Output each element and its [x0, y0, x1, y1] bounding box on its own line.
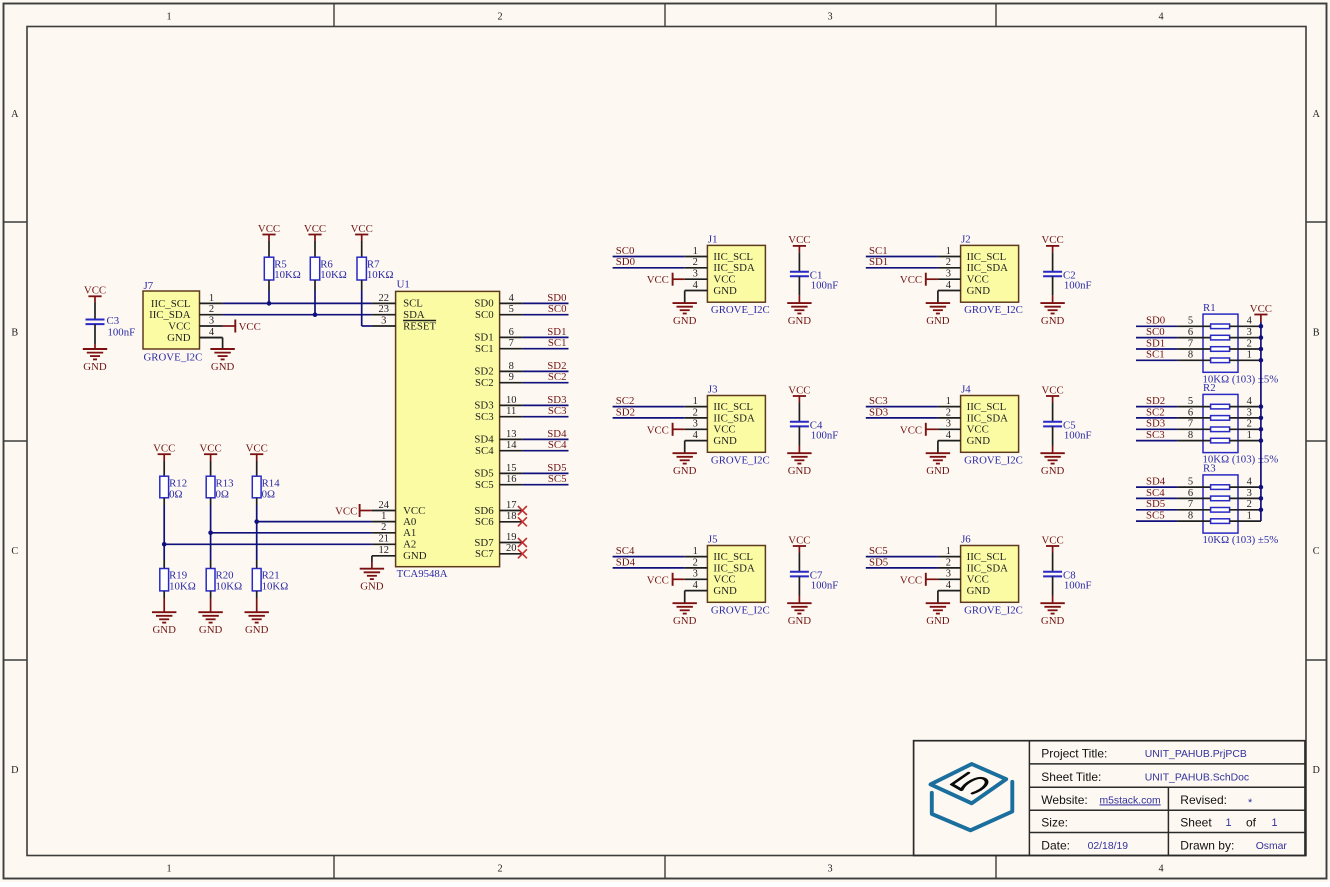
svg-text:SD1: SD1 — [869, 256, 888, 268]
svg-text:of: of — [1246, 816, 1257, 830]
net label SD0 — [547, 292, 566, 304]
wire J4.4 to ground — [937, 441, 939, 454]
connector J1 GROVE_I2C — [685, 234, 770, 317]
svg-text:1: 1 — [693, 246, 698, 257]
connector J7 GROVE_I2C — [143, 280, 223, 363]
ground at C4 — [787, 453, 811, 477]
svg-text:UNIT_PAHUB.SchDoc: UNIT_PAHUB.SchDoc — [1145, 772, 1249, 783]
ground at C8 — [1040, 603, 1064, 627]
wire VCC to C2 — [1052, 252, 1054, 271]
svg-text:SC2: SC2 — [548, 371, 567, 383]
svg-text:B: B — [1313, 328, 1320, 339]
svg-text:GND: GND — [83, 361, 107, 373]
svg-text:4: 4 — [1247, 477, 1253, 488]
svg-text:4: 4 — [1247, 316, 1253, 327]
power VCC at R6 — [304, 223, 326, 241]
svg-text:IIC_SCL: IIC_SCL — [151, 298, 191, 310]
svg-text:SD2: SD2 — [1146, 395, 1165, 407]
svg-text:SC0: SC0 — [1146, 326, 1165, 338]
svg-text:GND: GND — [713, 435, 737, 447]
svg-text:GND: GND — [211, 361, 235, 373]
svg-text:1: 1 — [946, 546, 951, 557]
junction R6/SDA — [313, 312, 318, 317]
svg-text:GND: GND — [967, 585, 991, 597]
svg-text:A2: A2 — [403, 539, 416, 551]
power VCC at R5 — [258, 223, 280, 241]
svg-text:IIC_SDA: IIC_SDA — [967, 562, 1009, 574]
svg-text:23: 23 — [378, 304, 389, 315]
resistor network R3 10KΩ (103) ±5% — [1177, 463, 1278, 546]
svg-text:SD7: SD7 — [474, 537, 494, 549]
svg-text:VCC: VCC — [788, 384, 810, 396]
net label SC4 — [548, 439, 567, 451]
svg-text:5: 5 — [1188, 396, 1193, 407]
svg-text:19: 19 — [506, 532, 517, 543]
svg-text:R2: R2 — [1203, 382, 1216, 394]
wire U1.6 SD1 net — [522, 336, 568, 338]
wire SD2 to R2.5 — [1136, 406, 1177, 408]
power VCC at J5.3 — [647, 573, 685, 587]
svg-text:GND: GND — [926, 315, 950, 327]
svg-text:6: 6 — [1188, 327, 1193, 338]
net label SD5 — [869, 556, 888, 568]
svg-text:GND: GND — [967, 435, 991, 447]
power VCC at C2 — [1041, 234, 1063, 252]
svg-text:17: 17 — [506, 500, 517, 511]
svg-text:3: 3 — [1247, 407, 1252, 418]
svg-text:GND: GND — [788, 465, 812, 477]
svg-text:1: 1 — [946, 396, 951, 407]
no-connect U1.19 SD7 — [518, 538, 527, 547]
svg-text:GROVE_I2C: GROVE_I2C — [711, 604, 770, 616]
wire SD0 net to J1.2 — [613, 267, 685, 269]
svg-text:VCC: VCC — [304, 223, 326, 235]
svg-text:3: 3 — [381, 315, 386, 326]
connector J5 GROVE_I2C — [685, 534, 770, 617]
wire J2.4 to ground — [937, 291, 939, 304]
wire J6.4 to ground — [937, 591, 939, 604]
capacitor C1 100nF — [790, 270, 838, 292]
ground at J5.4 — [673, 603, 697, 627]
svg-text:1: 1 — [1247, 350, 1252, 361]
wire SD3 net to J4.2 — [866, 417, 938, 419]
wire R19 to ground — [163, 591, 165, 612]
svg-text:RESET: RESET — [403, 320, 436, 332]
svg-text:GND: GND — [788, 315, 812, 327]
svg-text:22: 22 — [378, 293, 389, 304]
wire SC0 net to J1.1 — [613, 256, 685, 258]
svg-text:IIC_SCL: IIC_SCL — [713, 551, 753, 563]
junctions R3 VCC rail — [1259, 485, 1264, 512]
power VCC at J7.3 — [223, 320, 261, 334]
resistor R6 10KΩ — [310, 241, 347, 281]
svg-text:SD4: SD4 — [1146, 476, 1166, 488]
wire SC5 net to J6.1 — [866, 556, 938, 558]
ground at C2 — [1040, 303, 1064, 327]
svg-text:GROVE_I2C: GROVE_I2C — [964, 604, 1023, 616]
svg-text:3: 3 — [946, 569, 951, 580]
resistor R7 10KΩ — [357, 241, 394, 281]
svg-text:4: 4 — [693, 430, 699, 441]
svg-text:Drawn by:: Drawn by: — [1180, 838, 1234, 852]
net label SC3 (R2) — [1146, 429, 1165, 441]
capacitor C4 100nF — [790, 420, 838, 442]
svg-text:SD0: SD0 — [474, 298, 493, 310]
svg-text:8: 8 — [1188, 430, 1193, 441]
wire VCC to C4 — [798, 403, 800, 422]
svg-text:SD1: SD1 — [1146, 337, 1165, 349]
wire U1.4 SD0 net — [522, 302, 568, 304]
wire C7 to ground — [798, 576, 800, 603]
resistor R19 10KΩ — [160, 569, 196, 593]
svg-text:D: D — [1313, 765, 1320, 776]
wire SC2 to R2.6 — [1136, 417, 1177, 419]
wire A0 net (R14 to U1.1) — [257, 521, 372, 523]
svg-text:2: 2 — [497, 12, 502, 23]
capacitor C5 100nF — [1043, 420, 1091, 442]
svg-text:GND: GND — [403, 550, 427, 562]
svg-text:VCC: VCC — [713, 274, 735, 286]
svg-text:8: 8 — [1188, 350, 1193, 361]
svg-text:3: 3 — [1247, 327, 1252, 338]
power VCC at J3.3 — [647, 423, 685, 437]
svg-text:SC2: SC2 — [616, 395, 635, 407]
svg-text:3: 3 — [1247, 488, 1252, 499]
svg-text:SD4: SD4 — [547, 428, 567, 440]
net label SD1 — [547, 326, 566, 338]
net label SC5 — [869, 545, 888, 557]
svg-text:7: 7 — [1188, 499, 1193, 510]
svg-text:SC3: SC3 — [869, 395, 888, 407]
M5 logo — [931, 764, 1013, 830]
svg-text:GND: GND — [360, 581, 384, 593]
svg-text:GND: GND — [713, 585, 737, 597]
svg-text:1: 1 — [1271, 817, 1277, 829]
net label SD0 (R1) — [1146, 315, 1165, 327]
svg-text:16: 16 — [506, 474, 517, 485]
svg-text:SC0: SC0 — [548, 303, 567, 315]
svg-text:SC3: SC3 — [548, 405, 567, 417]
svg-text:VCC: VCC — [1041, 234, 1063, 246]
no-connect U1.17 SD6 — [518, 506, 527, 515]
svg-text:GND: GND — [1041, 315, 1065, 327]
svg-text:Date:: Date: — [1041, 838, 1070, 852]
svg-text:10KΩ: 10KΩ — [367, 269, 394, 281]
svg-text:1: 1 — [209, 293, 214, 304]
svg-text:R3: R3 — [1203, 463, 1216, 475]
junction R14 tap — [254, 519, 259, 524]
svg-text:GROVE_I2C: GROVE_I2C — [144, 351, 203, 363]
wire C2 to ground — [1052, 276, 1054, 303]
svg-text:GND: GND — [967, 285, 991, 297]
svg-text:A: A — [1313, 109, 1321, 120]
svg-text:IIC_SDA: IIC_SDA — [713, 262, 755, 274]
svg-text:100nF: 100nF — [1064, 580, 1092, 592]
svg-text:SC1: SC1 — [869, 245, 888, 257]
wire R6 to SDA net — [314, 280, 316, 315]
power VCC at U1.24 — [335, 504, 372, 518]
svg-text:100nF: 100nF — [1064, 430, 1092, 442]
svg-text:SC3: SC3 — [1146, 429, 1165, 441]
svg-text:2: 2 — [693, 557, 698, 568]
svg-text:2: 2 — [946, 407, 951, 418]
svg-text:IIC_SDA: IIC_SDA — [713, 562, 755, 574]
svg-text:IIC_SCL: IIC_SCL — [967, 251, 1007, 263]
svg-text:4: 4 — [946, 580, 952, 591]
net label SD2 — [616, 406, 635, 418]
net label SC0 (R1) — [1146, 326, 1165, 338]
power VCC at R14 — [246, 443, 268, 462]
svg-text:VCC: VCC — [1041, 384, 1063, 396]
ground at C5 — [1040, 453, 1064, 477]
wire U1.7 SC1 net — [522, 348, 568, 350]
svg-text:10KΩ: 10KΩ — [274, 269, 301, 281]
net label SD1 (R1) — [1146, 337, 1165, 349]
svg-text:0Ω: 0Ω — [262, 488, 275, 500]
svg-text:GND: GND — [713, 285, 737, 297]
net label SC4 — [616, 545, 635, 557]
svg-text:100nF: 100nF — [108, 326, 136, 338]
wire VCC to C8 — [1052, 553, 1054, 572]
wire R13 to R20 — [210, 498, 212, 569]
net label SC5 (R3) — [1146, 510, 1165, 522]
svg-text:7: 7 — [1188, 338, 1193, 349]
svg-text:SD1: SD1 — [547, 326, 566, 338]
wire R12 to R19 — [163, 498, 165, 569]
svg-text:100nF: 100nF — [811, 430, 839, 442]
net label SD4 — [616, 556, 636, 568]
wire SC1 net to J2.1 — [866, 256, 938, 258]
svg-text:SC7: SC7 — [475, 548, 494, 560]
svg-text:A1: A1 — [403, 527, 416, 539]
capacitor C7 100nF — [790, 570, 838, 592]
svg-text:SD4: SD4 — [616, 556, 636, 568]
svg-text:SD6: SD6 — [474, 505, 494, 517]
ground at C7 — [787, 603, 811, 627]
net label SC1 — [548, 337, 567, 349]
svg-text:21: 21 — [378, 534, 389, 545]
svg-text:IIC_SDA: IIC_SDA — [967, 262, 1009, 274]
wire U1.12 to ground — [371, 556, 373, 569]
resistor network R2 10KΩ (103) ±5% — [1177, 382, 1278, 465]
svg-text:TCA9548A: TCA9548A — [397, 568, 448, 580]
net label SD3 — [547, 394, 566, 406]
svg-text:A0: A0 — [403, 516, 416, 528]
svg-text:4: 4 — [1158, 864, 1163, 875]
wire A2 net (R12 to U1.21) — [164, 543, 372, 545]
power VCC at C8 — [1041, 534, 1063, 552]
wire R20 to ground — [210, 591, 212, 612]
wire J7.4 to ground — [200, 338, 223, 349]
svg-text:SC2: SC2 — [1146, 406, 1165, 418]
svg-text:GND: GND — [152, 624, 176, 636]
svg-text:3: 3 — [693, 569, 698, 580]
svg-text:1: 1 — [946, 246, 951, 257]
svg-text:5: 5 — [1188, 316, 1193, 327]
svg-text:GND: GND — [673, 615, 697, 627]
wire J7.1 to U1 SCL — [223, 302, 372, 304]
svg-text:SC0: SC0 — [616, 245, 635, 257]
svg-text:SC3: SC3 — [475, 411, 494, 423]
svg-text:3: 3 — [827, 864, 832, 875]
svg-text:100nF: 100nF — [1064, 279, 1092, 291]
svg-text:VCC: VCC — [239, 321, 261, 333]
svg-text:3: 3 — [209, 315, 214, 326]
svg-text:4: 4 — [1158, 12, 1163, 23]
svg-text:1: 1 — [1247, 430, 1252, 441]
svg-text:C3: C3 — [107, 315, 120, 327]
net label SD3 (R2) — [1146, 418, 1165, 430]
svg-text:10KΩ: 10KΩ — [320, 269, 347, 281]
svg-text:Size:: Size: — [1041, 816, 1068, 830]
ground at R20 — [198, 612, 222, 636]
wire J7.2 to U1 SDA — [223, 314, 372, 316]
svg-text:SD5: SD5 — [547, 462, 566, 474]
wire R5 to SCL net — [268, 280, 270, 303]
svg-text:24: 24 — [378, 500, 389, 511]
svg-text:Sheet: Sheet — [1180, 816, 1212, 830]
svg-text:1: 1 — [693, 546, 698, 557]
svg-text:VCC: VCC — [84, 285, 106, 297]
svg-text:SCL: SCL — [403, 298, 423, 310]
power VCC at C7 — [788, 534, 810, 552]
svg-text:SC5: SC5 — [1146, 510, 1165, 522]
wire U1.5 SC0 net — [522, 314, 568, 316]
power VCC at R1 rail — [1250, 303, 1272, 322]
ground at J2.4 — [926, 303, 950, 327]
svg-text:2: 2 — [693, 257, 698, 268]
svg-text:3: 3 — [946, 269, 951, 280]
svg-text:SD2: SD2 — [616, 406, 635, 418]
svg-text:GROVE_I2C: GROVE_I2C — [964, 454, 1023, 466]
svg-text:4: 4 — [946, 280, 952, 291]
svg-text:IIC_SDA: IIC_SDA — [967, 412, 1009, 424]
resistor R12 0Ω — [160, 461, 187, 500]
svg-text:10KΩ: 10KΩ — [169, 581, 196, 593]
ground at C1 — [787, 303, 811, 327]
svg-text:SD5: SD5 — [1146, 498, 1165, 510]
ground at J1.4 — [673, 303, 697, 327]
wire J1.4 to ground — [684, 291, 686, 304]
svg-text:4: 4 — [693, 580, 699, 591]
svg-text:GROVE_I2C: GROVE_I2C — [711, 304, 770, 316]
svg-text:SD3: SD3 — [869, 406, 888, 418]
svg-text:3: 3 — [946, 419, 951, 430]
svg-text:2: 2 — [497, 864, 502, 875]
resistor R21 10KΩ — [252, 569, 288, 593]
wire U1.13 SD4 net — [522, 438, 568, 440]
net label SC0 — [548, 303, 567, 315]
connector J6 GROVE_I2C — [938, 534, 1023, 617]
wire J5.4 to ground — [684, 591, 686, 604]
net label SC3 — [869, 395, 888, 407]
power VCC at J4.3 — [900, 423, 938, 437]
svg-text:VCC: VCC — [788, 534, 810, 546]
svg-text:VCC: VCC — [967, 274, 989, 286]
svg-text:VCC: VCC — [258, 223, 280, 235]
net label SD1 — [869, 256, 888, 268]
svg-text:4: 4 — [693, 280, 699, 291]
svg-text:SD0: SD0 — [616, 256, 635, 268]
svg-text:VCC: VCC — [351, 223, 373, 235]
svg-text:2: 2 — [1247, 499, 1252, 510]
svg-text:U1: U1 — [397, 278, 410, 290]
svg-text:J3: J3 — [708, 384, 718, 396]
svg-text:12: 12 — [378, 545, 389, 556]
svg-text:J6: J6 — [961, 534, 971, 546]
net label SC3 — [548, 405, 567, 417]
svg-text:VCC: VCC — [647, 574, 669, 586]
svg-text:SC4: SC4 — [548, 439, 567, 451]
svg-text:4: 4 — [509, 293, 515, 304]
power VCC at R12 — [153, 443, 175, 462]
svg-text:100nF: 100nF — [811, 580, 839, 592]
svg-text:GND: GND — [673, 465, 697, 477]
net label SC0 — [616, 245, 635, 257]
svg-text:100nF: 100nF — [811, 279, 839, 291]
wire J3.4 to ground — [684, 441, 686, 454]
svg-text:GND: GND — [926, 465, 950, 477]
net label SC1 (R1) — [1146, 349, 1165, 361]
connector J4 GROVE_I2C — [938, 384, 1023, 467]
ground at J6.4 — [926, 603, 950, 627]
net label SC2 (R2) — [1146, 406, 1165, 418]
power VCC at J2.3 — [900, 273, 938, 287]
svg-text:6: 6 — [509, 327, 514, 338]
ground at J3.4 — [673, 453, 697, 477]
junction R12 tap — [162, 542, 167, 547]
wire C3 to ground — [94, 324, 96, 349]
no-connect U1.20 SC7 — [518, 549, 527, 558]
svg-text:1: 1 — [166, 12, 171, 23]
ground at J4.4 — [926, 453, 950, 477]
svg-text:VCC: VCC — [1041, 534, 1063, 546]
svg-text:Project Title:: Project Title: — [1041, 747, 1107, 761]
svg-text:9: 9 — [509, 372, 514, 383]
svg-text:GND: GND — [167, 332, 191, 344]
wire SC0 to R1.6 — [1136, 337, 1177, 339]
ground at U1.12 — [360, 569, 384, 593]
svg-text:Website:: Website: — [1041, 793, 1087, 807]
net label SC4 (R3) — [1146, 487, 1165, 499]
wire U1.10 SD3 net — [522, 404, 568, 406]
wire SC4 to R3.6 — [1136, 497, 1177, 499]
capacitor C3 100nF — [86, 315, 136, 339]
svg-text:VCC: VCC — [713, 574, 735, 586]
svg-text:1: 1 — [381, 511, 386, 522]
svg-text:m5stack.com: m5stack.com — [1100, 795, 1161, 806]
net label SC2 — [616, 395, 635, 407]
svg-text:4: 4 — [946, 430, 952, 441]
resistor R20 10KΩ — [206, 569, 242, 593]
svg-text:GND: GND — [673, 315, 697, 327]
svg-text:11: 11 — [506, 406, 516, 417]
net label SC1 — [869, 245, 888, 257]
svg-text:7: 7 — [1188, 419, 1193, 430]
net label SD0 — [616, 256, 635, 268]
wire R14 to R21 — [256, 498, 258, 569]
svg-text:J7: J7 — [144, 280, 154, 292]
wire U1.14 SC4 net — [522, 450, 568, 452]
junction R5/SCL — [267, 301, 272, 306]
svg-text:14: 14 — [506, 440, 517, 451]
svg-text:SD3: SD3 — [1146, 418, 1165, 430]
svg-text:J1: J1 — [708, 234, 718, 246]
wire SC4 net to J5.1 — [613, 556, 685, 558]
svg-text:SD0: SD0 — [1146, 315, 1165, 327]
wire VCC to C1 — [798, 252, 800, 271]
power VCC at C3 — [84, 285, 106, 303]
